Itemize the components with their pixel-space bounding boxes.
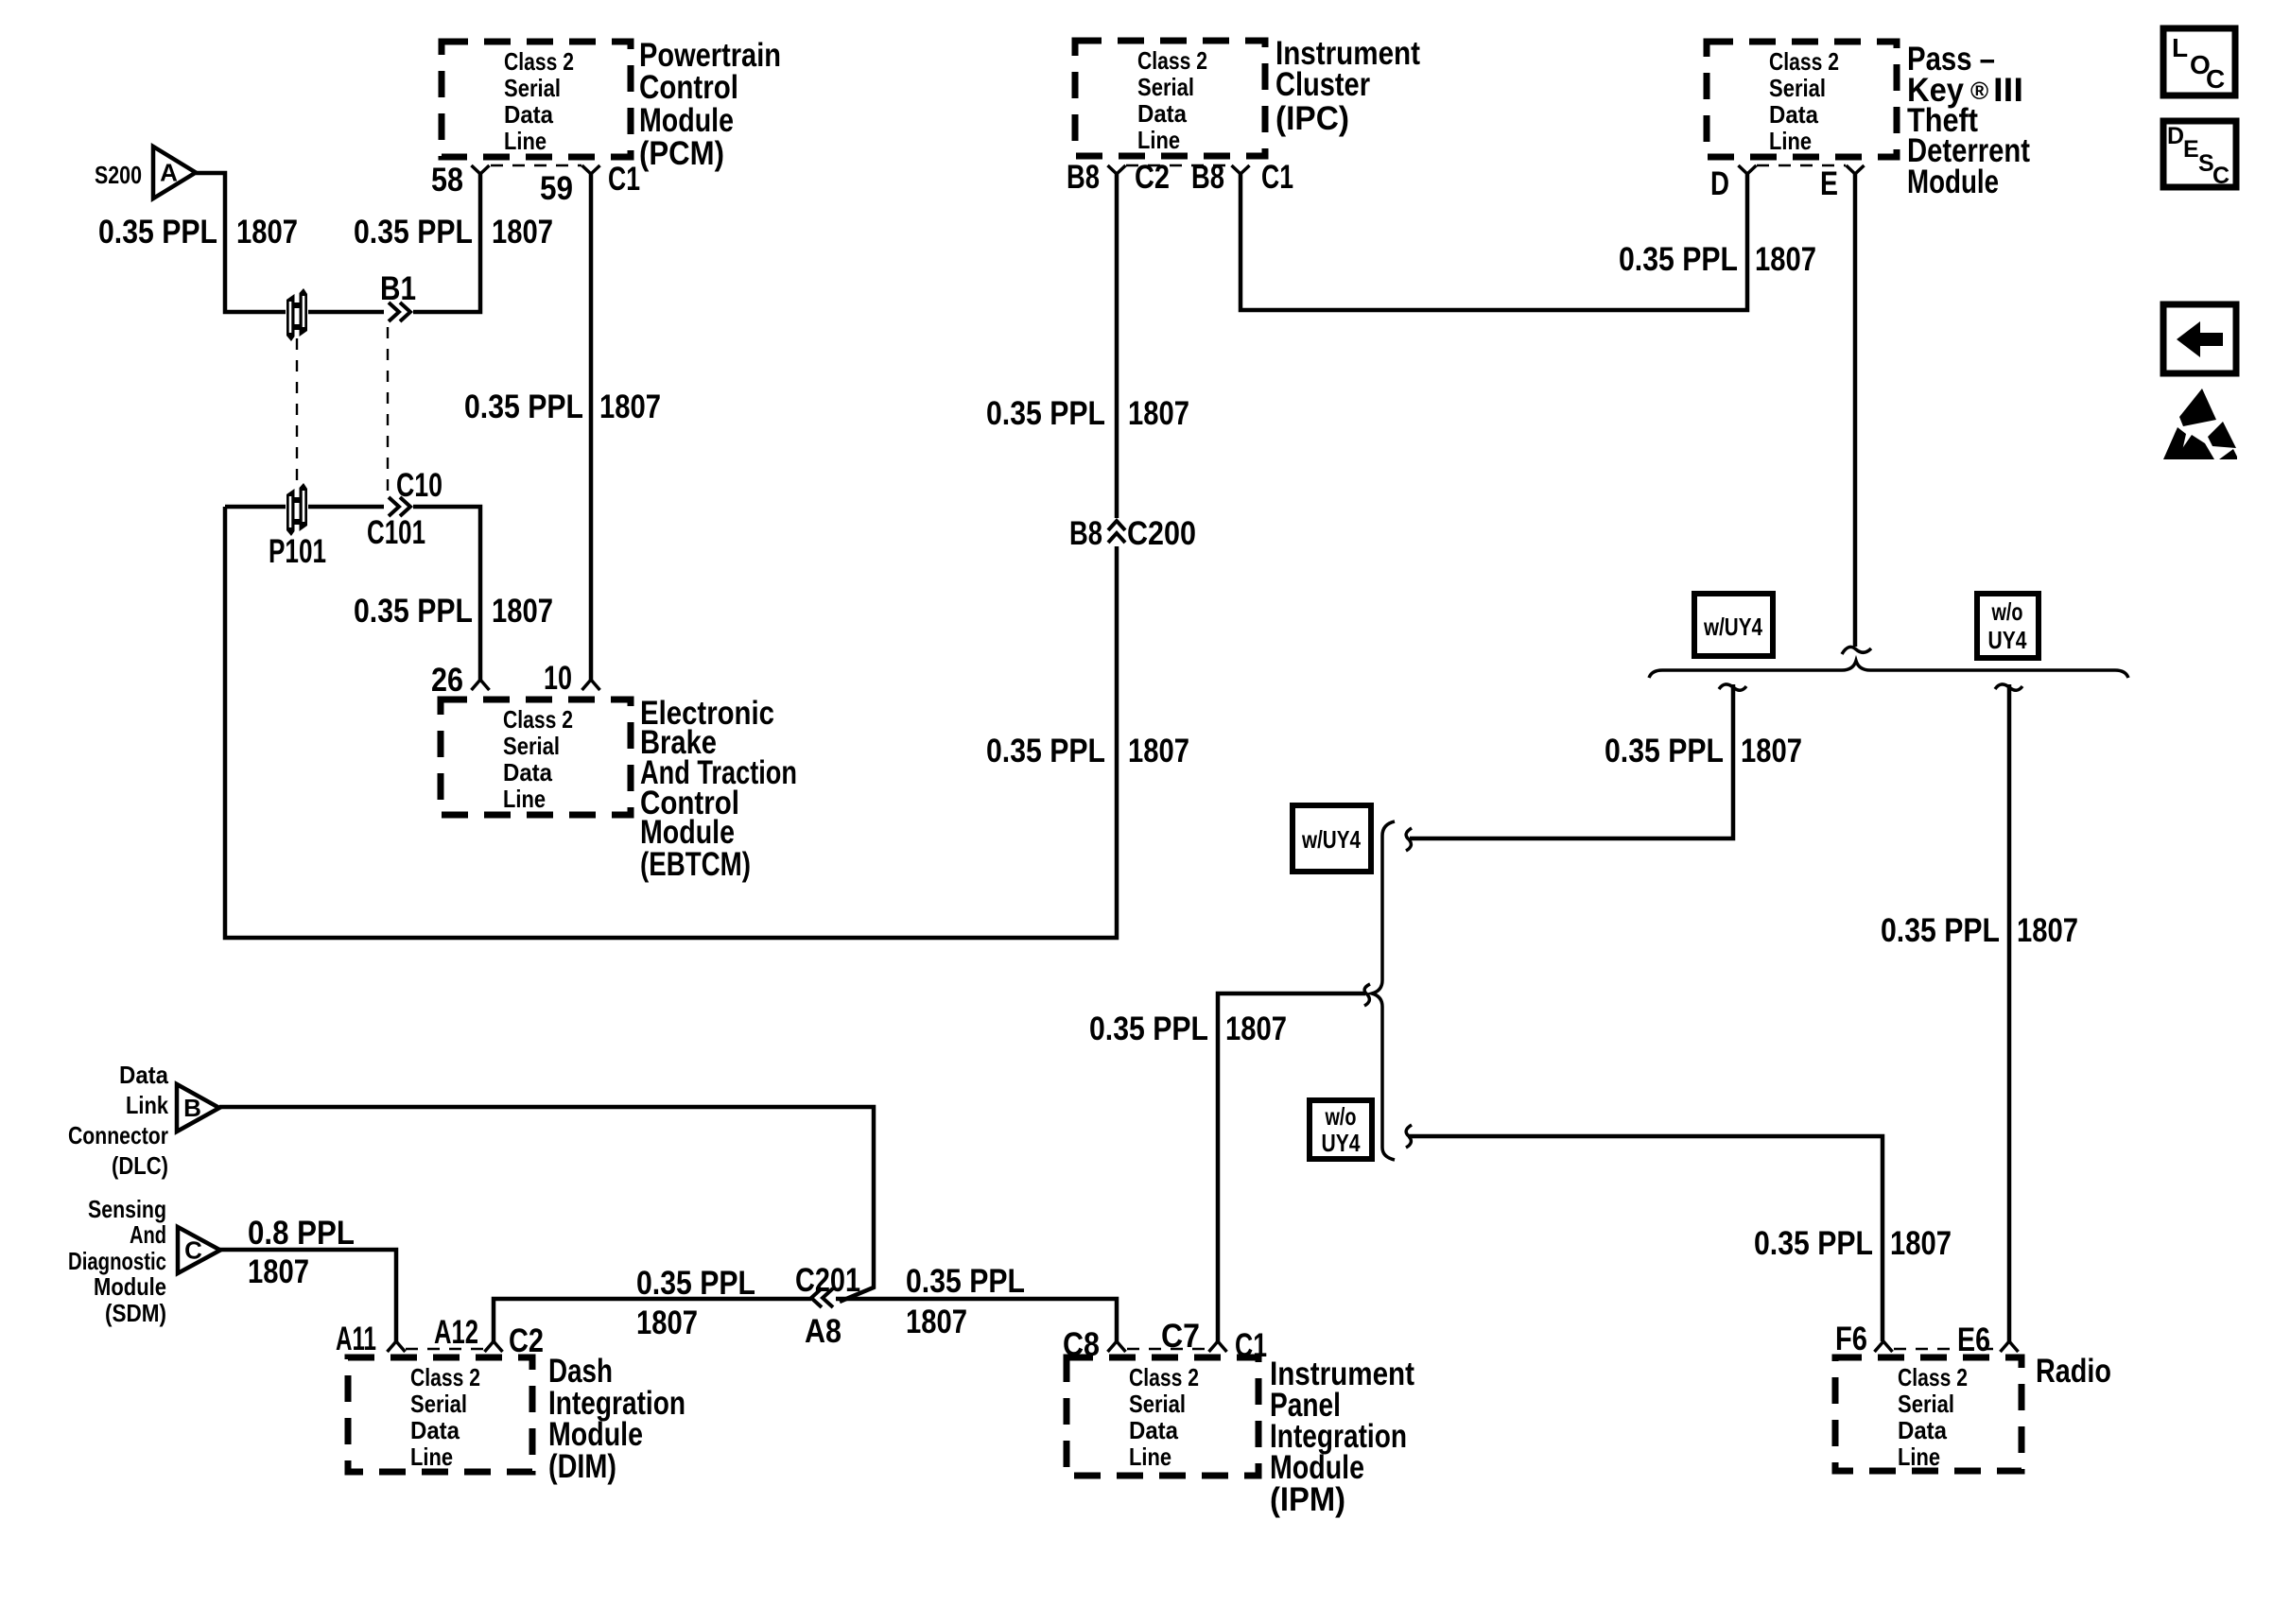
option box w/o UY4 right (1977, 594, 2039, 658)
svg-text:w/o: w/o (1991, 597, 2023, 626)
break squiggle at C7 branch end (1364, 984, 1370, 1006)
module box Pass-Key III (Class 2 Serial Data Line) (1707, 42, 1897, 157)
svg-text:B8: B8 (1067, 159, 1100, 196)
svg-text:Class 2: Class 2 (1137, 46, 1207, 75)
svg-text:Data: Data (1898, 1416, 1947, 1444)
connector C1 fork at PCM (582, 165, 600, 174)
connector triangle A (S200) (153, 147, 196, 199)
wire w/o UY4 branch to Radio E6 (2007, 684, 2012, 1341)
wire IPC B8 C1 to Pass-Key D (1241, 174, 1747, 310)
svg-text:C2: C2 (509, 1322, 544, 1359)
connector face dashed line Pass-Key (1757, 164, 1846, 166)
option box w/o UY4 middle (1310, 1100, 1372, 1159)
pin F6 fork at Radio (1875, 1341, 1893, 1352)
svg-text:0.35 PPL: 0.35 PPL (354, 593, 473, 630)
wire w/UY4 branch (1410, 684, 1733, 838)
option brace horizontal (1649, 661, 2128, 678)
svg-text:0.35 PPL: 0.35 PPL (1754, 1225, 1873, 1262)
svg-text:Serial: Serial (1137, 73, 1194, 101)
svg-text:C8: C8 (1063, 1326, 1100, 1363)
svg-text:1807: 1807 (1128, 733, 1189, 769)
svg-text:B8: B8 (1069, 515, 1102, 552)
option box w/UY4 middle (1293, 805, 1371, 872)
svg-text:Serial: Serial (503, 732, 560, 760)
svg-text:1807: 1807 (492, 214, 553, 251)
connector face dashed line DIM (406, 1348, 484, 1350)
svg-text:Data: Data (503, 758, 552, 786)
svg-text:Class 2: Class 2 (503, 705, 573, 734)
svg-text:58: 58 (431, 162, 463, 199)
inline connector C10 chevrons (389, 497, 410, 516)
svg-text:1807: 1807 (1890, 1225, 1952, 1262)
svg-text:0.35 PPL: 0.35 PPL (636, 1265, 755, 1302)
svg-text:1807: 1807 (599, 389, 661, 425)
svg-text:Line: Line (503, 785, 546, 813)
svg-text:0.35 PPL: 0.35 PPL (1089, 1011, 1208, 1047)
svg-text:C1: C1 (1235, 1327, 1267, 1364)
svg-text:(SDM): (SDM) (105, 1299, 166, 1327)
wire loop DIM-area to IPC B8 C2 lower (225, 507, 1117, 938)
icon ESD warning triangle (2179, 389, 2216, 426)
svg-text:1807: 1807 (1128, 395, 1189, 432)
svg-text:Cluster: Cluster (1275, 66, 1370, 103)
break squiggle at F6 branch start (1406, 1125, 1412, 1148)
wire brace to Radio F6 (1408, 1136, 1883, 1341)
svg-text:Link: Link (126, 1091, 168, 1119)
svg-text:Serial: Serial (1129, 1390, 1186, 1418)
svg-text:1807: 1807 (2017, 912, 2078, 949)
svg-text:And: And (130, 1220, 166, 1249)
icon box DESC (2163, 121, 2236, 187)
module box EBTCM (Class 2 Serial Data Line) (441, 700, 631, 815)
svg-text:C: C (184, 1236, 202, 1265)
svg-text:Data: Data (119, 1061, 168, 1089)
svg-text:(DIM): (DIM) (548, 1448, 616, 1485)
svg-text:(DLC): (DLC) (112, 1151, 168, 1180)
pin C7 fork at IPM (1209, 1341, 1227, 1352)
svg-text:(EBTCM): (EBTCM) (640, 846, 751, 883)
svg-text:(IPC): (IPC) (1275, 100, 1349, 137)
svg-text:A8: A8 (805, 1313, 842, 1350)
svg-text:Serial: Serial (1898, 1390, 1954, 1418)
svg-text:Line: Line (1137, 126, 1180, 154)
wire IPC B8 C2 upper segment (1115, 174, 1119, 518)
module box IPC (Class 2 Serial Data Line) (1075, 41, 1265, 156)
wire SDM C to DIM A11 (219, 1250, 396, 1341)
inline connector C201 A8 chevrons (811, 1288, 833, 1307)
svg-text:B1: B1 (380, 270, 416, 307)
svg-text:C: C (2206, 64, 2225, 94)
svg-text:0.35 PPL: 0.35 PPL (98, 214, 217, 251)
connector triangle B (DLC) (177, 1084, 219, 1132)
svg-text:10: 10 (544, 660, 572, 697)
svg-text:59: 59 (540, 170, 573, 207)
wire PCM 59 to EBTCM 10 (589, 174, 594, 680)
svg-text:Radio: Radio (2036, 1353, 2111, 1390)
svg-text:1807: 1807 (636, 1304, 698, 1341)
svg-text:E: E (2183, 136, 2199, 163)
pin E fork at Pass-Key (1847, 165, 1865, 174)
svg-text:w/o: w/o (1325, 1102, 1357, 1131)
wire B1 to PCM pin 58 (413, 174, 480, 312)
svg-text:E6: E6 (1957, 1322, 1990, 1358)
svg-text:Class 2: Class 2 (1898, 1363, 1968, 1391)
svg-text:Class 2: Class 2 (1769, 47, 1839, 76)
svg-text:UY4: UY4 (1988, 626, 2027, 654)
svg-text:1807: 1807 (236, 214, 298, 251)
svg-text:C1: C1 (608, 161, 640, 198)
svg-text:L: L (2172, 33, 2188, 62)
icon box LOC (2163, 28, 2235, 95)
module box DIM (Class 2 Serial Data Line) (348, 1357, 532, 1472)
svg-text:C101: C101 (367, 514, 425, 551)
connector face dashed line Radio (1894, 1348, 2000, 1350)
svg-text:C: C (2212, 163, 2230, 189)
option box w/UY4 right (1694, 594, 1773, 656)
pin E6 fork at Radio (2001, 1341, 2019, 1352)
svg-text:Serial: Serial (410, 1390, 467, 1418)
svg-text:1807: 1807 (248, 1253, 309, 1290)
svg-text:Serial: Serial (1769, 74, 1826, 102)
svg-text:B: B (183, 1094, 201, 1122)
svg-text:0.35 PPL: 0.35 PPL (1605, 733, 1724, 769)
svg-text:26: 26 (431, 662, 463, 699)
pin A12 fork at DIM (485, 1341, 503, 1352)
svg-text:Class 2: Class 2 (504, 47, 574, 76)
svg-text:Sensing: Sensing (88, 1195, 166, 1223)
svg-text:Module: Module (94, 1272, 166, 1301)
pin 26 fork at EBTCM (472, 680, 490, 690)
svg-text:0.35 PPL: 0.35 PPL (354, 214, 473, 251)
svg-text:0.35 PPL: 0.35 PPL (986, 733, 1105, 769)
break squiggle at E wire end (1842, 647, 1871, 654)
svg-text:D: D (2167, 123, 2184, 149)
grommet P101 (286, 482, 308, 538)
svg-text:1807: 1807 (1741, 733, 1802, 769)
connector face dashed line IPC (1126, 164, 1232, 166)
svg-text:P101: P101 (269, 533, 326, 570)
wire C101 row right segment to EBTCM 26 (413, 507, 480, 680)
module box PCM (Class 2 Serial Data Line) (442, 42, 631, 157)
svg-text:Data: Data (410, 1416, 460, 1444)
svg-text:S200: S200 (95, 161, 142, 189)
svg-text:1807: 1807 (1755, 241, 1816, 278)
svg-text:0.35 PPL: 0.35 PPL (1619, 241, 1738, 278)
svg-text:1807: 1807 (906, 1304, 967, 1340)
svg-text:Line: Line (1769, 127, 1812, 155)
wire Pass-Key E down (1853, 174, 1858, 647)
svg-text:Line: Line (1129, 1443, 1171, 1471)
svg-text:Class 2: Class 2 (1129, 1363, 1199, 1391)
svg-text:Data: Data (1129, 1416, 1178, 1444)
connector face dashed line IPM (1127, 1348, 1206, 1350)
svg-text:Module: Module (1907, 164, 1999, 200)
svg-text:(IPM): (IPM) (1270, 1481, 1345, 1518)
grommet on S200 wire (286, 287, 308, 343)
svg-text:w/UY4: w/UY4 (1703, 613, 1762, 641)
svg-text:III: III (1993, 72, 2023, 109)
connector triangle C (SDM) (178, 1227, 220, 1273)
svg-text:F6: F6 (1835, 1321, 1867, 1357)
wire IPM C7 riser (1218, 993, 1365, 1341)
svg-text:Data: Data (1769, 100, 1818, 129)
svg-text:D: D (1710, 165, 1729, 202)
svg-text:UY4: UY4 (1322, 1129, 1361, 1157)
icon box back arrow (2163, 304, 2236, 373)
svg-text:Module: Module (639, 102, 734, 139)
pin D fork at Pass-Key (1739, 165, 1757, 174)
svg-text:w/UY4: w/UY4 (1301, 825, 1361, 854)
break squiggle at w/UY4 branch end (1406, 828, 1412, 851)
connector face dashed line PCM C1 (491, 164, 581, 166)
module box Radio (Class 2 Serial Data Line) (1835, 1357, 2021, 1471)
svg-text:Line: Line (1898, 1443, 1940, 1471)
svg-text:C1: C1 (1261, 159, 1293, 196)
pin 10 fork at EBTCM (582, 680, 600, 690)
svg-text:A12: A12 (434, 1314, 478, 1351)
svg-text:0.35 PPL: 0.35 PPL (464, 389, 583, 425)
dashed pairing line P101 (296, 338, 298, 485)
svg-text:Class 2: Class 2 (410, 1363, 480, 1391)
option brace vertical (1372, 821, 1395, 1160)
wire C101 row left segment (225, 505, 384, 510)
module box IPM (Class 2 Serial Data Line) (1067, 1357, 1258, 1476)
svg-text:E: E (1820, 165, 1838, 202)
svg-text:Data: Data (1137, 99, 1187, 128)
pin A11 fork at DIM (388, 1341, 406, 1352)
svg-text:0.35 PPL: 0.35 PPL (1881, 912, 2000, 949)
wire DLC B to C201 junction (219, 1107, 874, 1302)
wire C201 to IPM C8 (836, 1299, 1117, 1341)
pin 58 fork at PCM (472, 165, 490, 174)
break squiggle at w/o UY4 branch start (1995, 684, 2022, 690)
svg-text:1807: 1807 (1225, 1011, 1287, 1047)
pin C8 fork at IPM (1108, 1341, 1126, 1352)
svg-text:®: ® (1970, 77, 1988, 105)
svg-text:A11: A11 (336, 1321, 376, 1357)
inline connector B1 chevrons (389, 302, 410, 321)
svg-text:0.35 PPL: 0.35 PPL (986, 395, 1105, 432)
svg-text:Serial: Serial (504, 74, 561, 102)
dashed pairing line B1-C10 (387, 327, 389, 492)
svg-text:1807: 1807 (492, 593, 553, 630)
break squiggle at w/UY4 branch start (1719, 684, 1746, 690)
svg-text:0.35 PPL: 0.35 PPL (906, 1263, 1025, 1300)
svg-text:0.8 PPL: 0.8 PPL (248, 1215, 355, 1252)
pin B8/C2 fork at IPC (1108, 165, 1126, 174)
svg-text:Line: Line (410, 1443, 453, 1471)
svg-text:(PCM): (PCM) (639, 135, 724, 172)
svg-text:Connector: Connector (68, 1121, 168, 1149)
svg-text:Line: Line (504, 127, 547, 155)
wire S200 to B1 splice row (196, 173, 384, 312)
inline connector C200 chevrons (1108, 521, 1125, 543)
svg-text:C200: C200 (1127, 515, 1196, 552)
svg-text:Data: Data (504, 100, 553, 129)
pin B8/C1 fork at IPC (1232, 165, 1250, 174)
svg-text:A: A (160, 159, 178, 187)
svg-text:Control: Control (639, 69, 738, 106)
wire DIM A12 riser (494, 1299, 811, 1341)
svg-text:Diagnostic: Diagnostic (68, 1247, 166, 1275)
